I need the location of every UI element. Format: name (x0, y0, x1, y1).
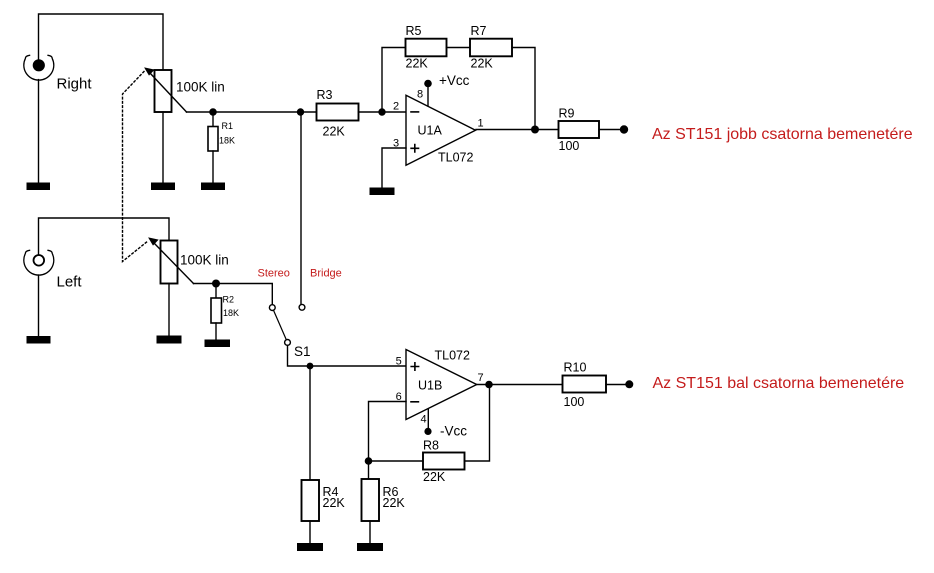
wire jack-L to ground (38, 275, 40, 337)
ground (pot P2) (157, 336, 182, 344)
svg-text:S1: S1 (294, 344, 311, 359)
label 100 (R10) (564, 395, 585, 409)
wire node to R1 (212, 112, 214, 127)
svg-text:100: 100 (564, 395, 585, 409)
resistor R2 body (211, 298, 222, 323)
label output right (red) (652, 126, 913, 143)
wire R10 to output terminal (606, 384, 630, 386)
svg-text:22K: 22K (423, 470, 446, 484)
label pin 8 (417, 88, 423, 100)
label pin 4 (421, 414, 427, 426)
wire jack-R to ground (38, 80, 40, 183)
ground (pin3) (370, 188, 395, 196)
wire output U1B to R10 (477, 384, 564, 386)
label output left (red) (653, 375, 905, 392)
label S1 (294, 344, 311, 359)
-Vcc terminal dot (424, 428, 431, 435)
label R6 (383, 485, 399, 499)
wire pin6 to feedback node (369, 402, 407, 462)
label R8 (423, 439, 439, 453)
svg-text:Az ST151 jobb csatorna bemenet: Az ST151 jobb csatorna bemenetére (652, 126, 913, 143)
ground (R4) (297, 543, 323, 551)
gang dotted link P1-P2 (123, 72, 149, 262)
label pin 7 (478, 372, 484, 384)
svg-text:TL072: TL072 (438, 151, 473, 165)
svg-text:100: 100 (559, 139, 580, 153)
svg-text:U1B: U1B (418, 379, 442, 393)
label 22K (R3) (323, 125, 346, 139)
svg-text:22K: 22K (323, 496, 346, 510)
+Vcc terminal dot (424, 80, 432, 88)
label R7 (471, 24, 487, 38)
ground (jack R) (27, 183, 51, 191)
svg-text:4: 4 (421, 414, 427, 426)
svg-text:Stereo: Stereo (258, 267, 290, 279)
junction node output A (531, 126, 539, 134)
label U1B (418, 379, 442, 393)
svg-text:22K: 22K (323, 125, 346, 139)
resistor R10 body (563, 376, 607, 393)
wire bridge tap down to switch (300, 112, 302, 304)
potentiometer P1 body (155, 70, 172, 112)
op-amp plus sign (U1A) (411, 145, 418, 152)
svg-text:22K: 22K (406, 57, 429, 71)
label 100 (R9) (559, 139, 580, 153)
junction node output B (485, 381, 493, 389)
label 18K (R2) (223, 308, 239, 318)
ground (R1) (201, 183, 225, 191)
switch S1 common contact (285, 340, 291, 346)
label pin 6 (396, 391, 402, 403)
label R9 (559, 107, 575, 121)
resistor R9 body (559, 121, 600, 138)
potentiometer P1 wiper arrow (145, 68, 186, 112)
junction node pin2/feedback (378, 108, 385, 115)
wire R1 to ground (212, 151, 214, 183)
label 22K (R8) (423, 470, 446, 484)
label 22K (R5) (406, 57, 429, 71)
label R4 (323, 485, 339, 499)
wire feedback up to R5 (382, 48, 406, 113)
svg-text:22K: 22K (383, 496, 406, 510)
op-amp plus sign (U1B) (411, 363, 418, 370)
resistor R8 body (423, 453, 465, 470)
resistor R3 body (317, 104, 359, 121)
op-amp U1A body (406, 95, 476, 165)
ground (R6) (357, 543, 383, 551)
label 100K lin (P2) (180, 253, 229, 268)
potentiometer P2 wiper arrow (149, 238, 193, 283)
output terminal dot (left ch) (625, 380, 633, 388)
label -Vcc (440, 424, 467, 439)
svg-text:1: 1 (478, 117, 484, 129)
label R1 (222, 121, 234, 131)
wire jack-L top to pot P2 (39, 218, 170, 255)
ground (pot P1) (151, 183, 175, 191)
svg-text:5: 5 (396, 355, 402, 367)
wire R3 to pin2 (359, 111, 407, 113)
label pin 3 (393, 138, 399, 150)
jack J-Right (24, 55, 54, 80)
label pin 2 (393, 101, 399, 113)
junction node bridge tap (297, 108, 304, 115)
svg-text:7: 7 (478, 372, 484, 384)
switch S1 stereo contact (269, 305, 275, 311)
svg-text:R5: R5 (406, 24, 422, 38)
svg-text:R2: R2 (223, 295, 235, 305)
label R3 (317, 88, 333, 102)
svg-text:100K lin: 100K lin (180, 253, 229, 268)
junction node P2/R2 (212, 280, 220, 288)
switch S1 bridge contact (299, 304, 305, 310)
svg-text:R10: R10 (564, 361, 587, 375)
wire R9 to output terminal (599, 129, 624, 131)
wire node to R2 (215, 284, 217, 299)
op-amp minus sign (U1A) (411, 111, 419, 113)
label 22K (R7) (471, 57, 494, 71)
resistor R6 body (362, 479, 380, 521)
label Right (57, 76, 93, 93)
op-amp U1B body (406, 350, 477, 420)
label pin 1 (478, 117, 484, 129)
ground (R2) (205, 340, 231, 348)
label 22K (R4) (323, 496, 346, 510)
label TL072 (U1B) (435, 348, 470, 362)
label Stereo (red) (258, 267, 290, 279)
resistor R4 body (302, 480, 320, 521)
wire output U1A to R9 (476, 129, 559, 131)
svg-text:Left: Left (57, 273, 83, 290)
wire pin3 to ground (382, 148, 406, 188)
svg-text:18K: 18K (223, 308, 239, 318)
svg-text:R9: R9 (559, 107, 575, 121)
wire jack-R top to pot (39, 14, 164, 70)
wire wiper P2 to switch (194, 284, 273, 305)
svg-text:R8: R8 (423, 439, 439, 453)
svg-text:+Vcc: +Vcc (439, 73, 470, 88)
junction node P1/R1 (209, 108, 217, 116)
wire R8 to output node B (465, 385, 490, 462)
svg-text:TL072: TL072 (435, 348, 470, 362)
svg-text:-Vcc: -Vcc (440, 424, 467, 439)
label 100K lin (P1) (176, 80, 225, 95)
svg-text:R7: R7 (471, 24, 487, 38)
svg-text:2: 2 (393, 101, 399, 113)
resistor R1 body (208, 127, 218, 152)
svg-text:R3: R3 (317, 88, 333, 102)
wire node to R6 (368, 461, 370, 479)
switch S1 lever (274, 310, 287, 339)
label Bridge (red) (310, 267, 342, 279)
wire switch common to pin5 (288, 345, 407, 366)
wire node to R3 (301, 111, 317, 113)
label R2 (223, 295, 235, 305)
resistor R5 body (406, 39, 447, 57)
wire R5 to R7 (447, 47, 471, 49)
junction node S1/R4 (307, 363, 314, 370)
op-amp minus sign (U1B) (411, 401, 418, 403)
wire R7 down to output node (512, 48, 535, 130)
junction node R6/R8 (365, 457, 373, 465)
svg-text:22K: 22K (471, 57, 494, 71)
svg-text:18K: 18K (219, 136, 235, 146)
wire node to R8 (369, 460, 424, 462)
label U1A (418, 124, 443, 138)
wire pin4 to -Vcc (427, 410, 429, 430)
label Left (57, 273, 83, 290)
svg-text:Az ST151 bal csatorna bemeneté: Az ST151 bal csatorna bemenetére (653, 375, 905, 392)
svg-text:100K lin: 100K lin (176, 80, 225, 95)
wire wiper P1 to R3 node (187, 111, 301, 113)
label 22K (R6) (383, 496, 406, 510)
svg-text:Bridge: Bridge (310, 267, 342, 279)
label R10 (564, 361, 587, 375)
label R5 (406, 24, 422, 38)
svg-text:U1A: U1A (418, 124, 443, 138)
wire R6 to ground (369, 521, 371, 544)
svg-text:Right: Right (57, 76, 93, 93)
label 18K (R1) (219, 136, 235, 146)
label +Vcc (439, 73, 470, 88)
output terminal dot (right ch) (620, 125, 628, 133)
wire node to R4 (309, 366, 311, 480)
wire pin8 to +Vcc (427, 85, 429, 106)
potentiometer P2 body (161, 241, 178, 284)
label pin 5 (396, 355, 402, 367)
ground (jack L) (27, 336, 51, 344)
wire pot P2 to ground (168, 284, 170, 337)
svg-text:8: 8 (417, 88, 423, 100)
wire R2 to ground (215, 323, 217, 340)
svg-text:R1: R1 (222, 121, 234, 131)
label TL072 (U1A) (438, 151, 473, 165)
wire pot P1 to ground (162, 112, 164, 183)
resistor R7 body (470, 39, 512, 57)
wire R4 to ground (309, 521, 311, 544)
jack J-Left (24, 250, 54, 275)
